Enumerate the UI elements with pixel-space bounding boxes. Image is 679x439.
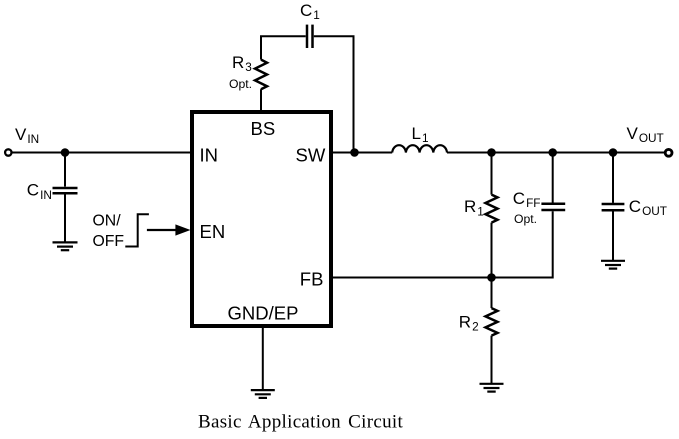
wire CIN bottom lead	[64, 195, 66, 242]
resistor R2	[486, 308, 498, 336]
ground COUT	[601, 261, 625, 269]
svg-text:IN: IN	[200, 145, 219, 166]
capacitor COUT	[602, 204, 625, 210]
wire BS pin to R3	[260, 89, 262, 110]
svg-text:GND/EP: GND/EP	[228, 303, 299, 324]
capacitor CIN	[53, 188, 78, 193]
svg-text:COUT: COUT	[629, 197, 667, 218]
capacitor CFF	[541, 204, 565, 210]
wire CIN top lead	[64, 153, 66, 187]
wire R3 top to C1 left plate	[261, 36, 306, 59]
wire COUT bottom lead	[612, 212, 614, 261]
wire L1 to VOUT terminal	[447, 152, 665, 154]
op-amp U1 (converter IC box)	[192, 112, 331, 326]
wire R1 bottom lead to FB rail	[491, 223, 493, 278]
wire R2 top lead	[491, 278, 493, 309]
svg-text:ON/: ON/	[93, 213, 122, 230]
svg-text:R3: R3	[232, 53, 252, 74]
svg-text:R1: R1	[464, 197, 484, 218]
wire VIN to IN pin	[12, 152, 191, 154]
node R1 top junction	[487, 148, 496, 157]
wire SW pin to L1	[331, 152, 392, 154]
inductor L1	[392, 145, 447, 152]
svg-text:VOUT: VOUT	[627, 124, 664, 145]
wire CFF top lead	[552, 153, 554, 203]
ground CIN	[53, 242, 78, 250]
ground R2	[480, 384, 504, 392]
svg-text:CFF: CFF	[513, 189, 541, 210]
svg-text:EN: EN	[200, 221, 226, 242]
svg-text:VIN: VIN	[15, 125, 39, 146]
svg-text:Basic Application Circuit: Basic Application Circuit	[198, 412, 403, 433]
step waveform symbol	[125, 214, 149, 246]
node COUT top junction	[609, 148, 618, 157]
wire C1 right plate down to SW node	[314, 36, 354, 152]
ground GND/EP	[251, 390, 275, 398]
svg-text:CIN: CIN	[27, 181, 52, 202]
wire COUT top lead	[612, 153, 614, 203]
svg-text:L1: L1	[412, 124, 429, 145]
wire CFF bottom lead to FB rail	[552, 211, 554, 278]
svg-text:SW: SW	[296, 145, 326, 166]
arrowhead into EN pin	[175, 224, 190, 235]
capacitor C1	[307, 25, 313, 48]
node SW junction	[350, 148, 359, 157]
svg-text:BS: BS	[251, 118, 276, 139]
wire GND/EP pin to ground	[262, 326, 264, 389]
svg-text:R2: R2	[459, 312, 479, 333]
wire R1 top lead	[491, 153, 493, 195]
svg-text:FB: FB	[300, 269, 324, 290]
resistor R1	[486, 195, 498, 223]
node CFF top junction	[548, 148, 557, 157]
svg-text:Opt.: Opt.	[229, 77, 252, 91]
svg-text:C1: C1	[300, 1, 320, 22]
terminal VOUT (open circle)	[665, 149, 672, 156]
node FB junction	[487, 273, 496, 282]
wire R2 bottom lead	[491, 336, 493, 383]
wire FB pin rail	[331, 277, 553, 279]
svg-text:Opt.: Opt.	[514, 212, 537, 226]
resistor R3	[255, 60, 267, 90]
wire EN arrow shaft	[147, 229, 177, 231]
svg-text:OFF: OFF	[93, 233, 125, 250]
terminal VIN (open circle)	[5, 149, 11, 155]
node VIN/CIN junction	[61, 148, 70, 157]
